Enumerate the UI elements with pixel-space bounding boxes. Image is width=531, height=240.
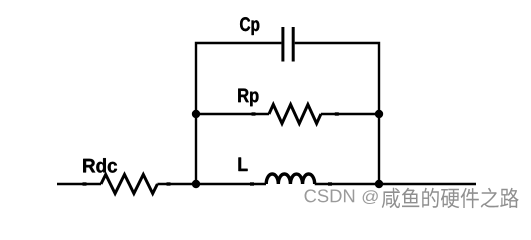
L terminal nub right	[328, 182, 332, 185]
junction node right-bottom	[375, 180, 383, 188]
junction node left-middle	[192, 110, 200, 118]
resistor Rp	[269, 105, 321, 124]
Rdc terminal nub left	[83, 182, 87, 185]
wire main horizontal input lead	[57, 183, 101, 185]
label Rp	[238, 89, 258, 107]
wire left branch up and top to capacitor	[196, 43, 281, 184]
Rp terminal nub left	[252, 112, 256, 115]
L terminal nub left	[250, 182, 254, 185]
label Rdc	[83, 158, 117, 172]
capacitor Cp	[283, 27, 293, 62]
label Cp	[240, 17, 259, 35]
inductor L	[266, 174, 314, 184]
junction node right-middle	[375, 110, 383, 118]
wire output lead to the right	[315, 183, 476, 185]
Rp terminal nub right	[335, 112, 339, 115]
wire from Rdc to node A	[157, 183, 266, 185]
wire middle row left	[196, 113, 269, 115]
wire top right from capacitor down right branch	[295, 43, 379, 184]
resistor Rdc	[101, 175, 157, 194]
label L	[238, 158, 247, 171]
Rdc terminal nub right	[167, 182, 171, 185]
junction node left-bottom	[192, 180, 200, 188]
wire middle row right	[321, 113, 379, 115]
watermark CSDN @xianyu hardware road	[305, 188, 519, 208]
